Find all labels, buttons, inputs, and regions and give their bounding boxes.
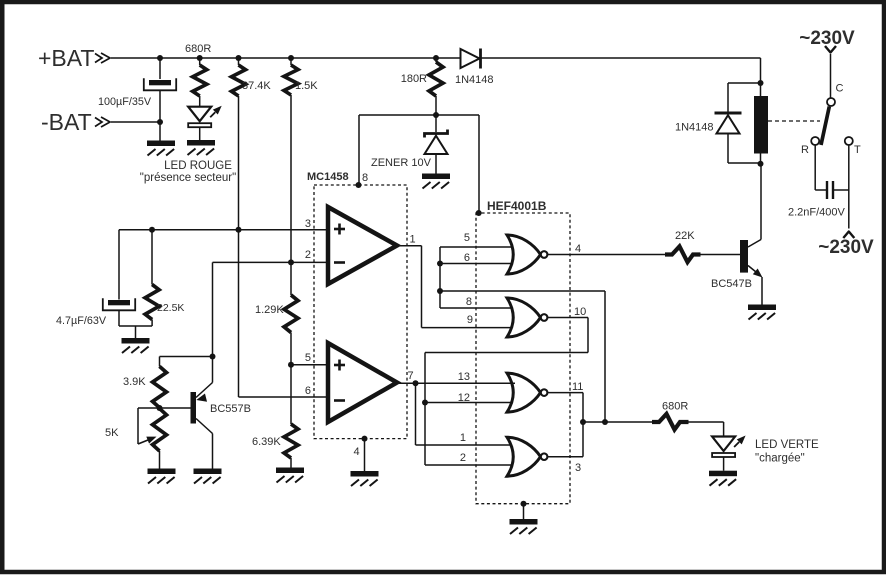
svg-text:T: T — [854, 144, 861, 156]
svg-text:BC557B: BC557B — [210, 403, 251, 415]
svg-text:3: 3 — [575, 462, 581, 474]
svg-text:6: 6 — [464, 252, 470, 264]
svg-text:100µF/35V: 100µF/35V — [98, 96, 152, 108]
svg-text:5K: 5K — [105, 427, 119, 439]
svg-text:BC547B: BC547B — [711, 278, 752, 290]
svg-text:22.5K: 22.5K — [157, 302, 184, 314]
svg-text:MC1458: MC1458 — [307, 171, 349, 183]
svg-text:4: 4 — [354, 446, 360, 458]
svg-text:"chargée": "chargée" — [755, 453, 805, 465]
svg-text:12: 12 — [458, 392, 470, 404]
svg-text:7: 7 — [408, 370, 414, 382]
svg-text:5: 5 — [305, 352, 311, 364]
svg-text:4: 4 — [575, 243, 581, 255]
svg-text:10: 10 — [574, 306, 586, 318]
svg-text:8: 8 — [466, 296, 472, 308]
svg-text:9: 9 — [467, 314, 473, 326]
svg-text:LED VERTE: LED VERTE — [755, 439, 819, 451]
svg-text:1N4148: 1N4148 — [455, 74, 494, 86]
svg-text:-BAT: -BAT — [41, 109, 92, 135]
svg-text:3.9K: 3.9K — [123, 376, 146, 388]
svg-text:8: 8 — [362, 172, 368, 184]
svg-text:LED ROUGE: LED ROUGE — [164, 160, 232, 172]
svg-text:+BAT: +BAT — [38, 45, 94, 71]
svg-text:1N4148: 1N4148 — [675, 122, 714, 134]
svg-text:5: 5 — [464, 232, 470, 244]
svg-text:1.5K: 1.5K — [295, 80, 318, 92]
svg-text:HEF4001B: HEF4001B — [487, 199, 547, 213]
svg-text:3: 3 — [305, 218, 311, 230]
svg-text:680R: 680R — [185, 43, 211, 55]
svg-text:"présence secteur": "présence secteur" — [140, 172, 236, 184]
svg-text:2: 2 — [305, 249, 311, 261]
svg-text:13: 13 — [458, 371, 470, 383]
svg-text:6: 6 — [305, 385, 311, 397]
svg-text:~230V: ~230V — [799, 28, 855, 49]
svg-text:22K: 22K — [675, 230, 695, 242]
svg-text:2: 2 — [460, 452, 466, 464]
svg-text:680R: 680R — [662, 401, 688, 413]
svg-text:37.4K: 37.4K — [242, 80, 271, 92]
svg-text:6.39K: 6.39K — [252, 436, 281, 448]
svg-text:180R: 180R — [401, 73, 427, 85]
svg-text:1: 1 — [460, 432, 466, 444]
svg-text:ZENER 10V: ZENER 10V — [371, 157, 432, 169]
svg-text:R: R — [801, 144, 809, 156]
svg-text:~230V: ~230V — [818, 237, 874, 258]
svg-text:4.7µF/63V: 4.7µF/63V — [56, 315, 107, 327]
svg-text:2.2nF/400V: 2.2nF/400V — [788, 207, 846, 219]
svg-text:C: C — [836, 83, 844, 95]
svg-text:1: 1 — [410, 234, 416, 246]
svg-text:1.29K: 1.29K — [255, 304, 284, 316]
svg-text:11: 11 — [572, 381, 583, 393]
